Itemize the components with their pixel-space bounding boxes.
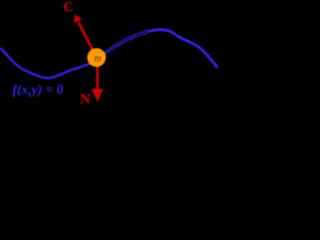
arrow C head	[74, 14, 82, 23]
arrow C shaft	[78, 22, 96, 57]
arrow N head	[92, 89, 104, 102]
arrow N shaft	[96, 58, 99, 91]
curve double-line upper stroke	[103, 31, 152, 55]
curve f(x,y)=0 left segment	[1, 49, 104, 79]
svg-text:C: C	[63, 0, 73, 16]
mass m circle	[87, 48, 106, 67]
curve double-line lower stroke	[103, 31, 152, 55]
svg-text:N: N	[80, 92, 91, 108]
curve f(x,y)=0 right segment	[152, 30, 217, 67]
svg-text:f(x,y) = 0: f(x,y) = 0	[13, 82, 64, 97]
svg-text:m: m	[94, 53, 101, 64]
